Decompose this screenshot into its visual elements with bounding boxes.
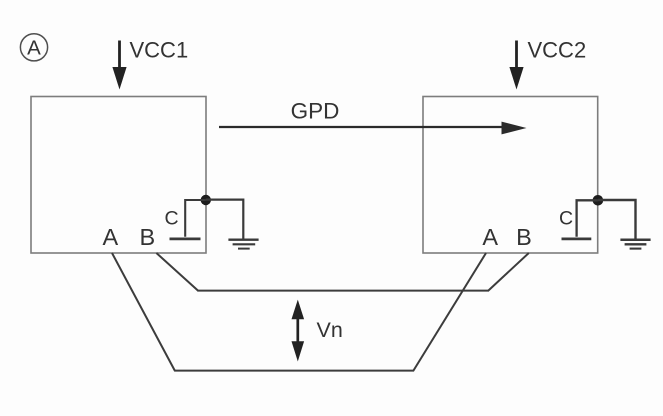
VCC2 supply arrow — [509, 41, 523, 90]
node J1 on U1 right edge (junction dot) — [201, 195, 211, 205]
svg-text:Vn: Vn — [317, 318, 343, 342]
ground wire (left) — [206, 200, 244, 239]
svg-text:C: C — [164, 208, 178, 230]
svg-text:GPD: GPD — [291, 98, 340, 123]
svg-text:A: A — [482, 224, 498, 250]
wire: diagonal to U2 pin A — [488, 253, 529, 291]
capacitor C2 plate (right) — [562, 238, 592, 241]
svg-text:VCC2: VCC2 — [528, 37, 587, 62]
GPD signal arrow — [219, 122, 527, 135]
wire: diagonal from U1 pin B — [156, 253, 198, 291]
capacitor C2 wire (dot to plate, right) — [577, 200, 598, 237]
node J2 on U2 right edge (junction dot) — [593, 195, 604, 206]
figure label A (circled) — [20, 34, 47, 61]
left device box U1 — [31, 97, 206, 254]
svg-text:C: C — [559, 208, 573, 230]
svg-text:A: A — [102, 224, 118, 250]
wire: lower horizontal run — [174, 370, 414, 372]
VCC1 supply arrow — [112, 41, 126, 90]
svg-text:VCC1: VCC1 — [130, 37, 189, 62]
right device box U2 — [423, 97, 598, 254]
wire: diagonal to U2 pin B — [413, 253, 486, 371]
capacitor C1 plate (left) — [170, 238, 201, 241]
svg-text:B: B — [139, 224, 155, 250]
svg-text:B: B — [516, 224, 532, 250]
capacitor C1 wire (dot to plate, left) — [185, 200, 206, 237]
ground GND1 (left) — [228, 240, 258, 249]
svg-text:A: A — [27, 36, 41, 59]
ground wire (right) — [598, 200, 636, 239]
wire: upper horizontal run — [197, 290, 489, 292]
ground GND2 (right) — [620, 240, 650, 249]
Vn noise arrow (double-headed) — [292, 300, 305, 362]
wire: diagonal from U1 pin A — [112, 253, 175, 371]
